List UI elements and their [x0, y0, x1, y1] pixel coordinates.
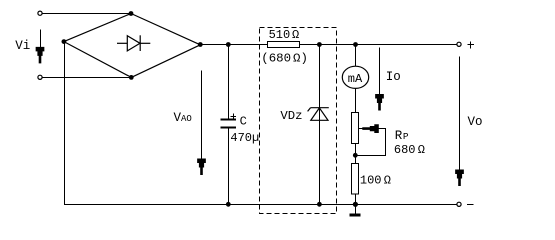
ground symbol [350, 205, 361, 217]
node bridge left vertex [62, 39, 67, 44]
svg-text:VDz: VDz [280, 109, 302, 123]
label Io [386, 70, 401, 84]
node bridge top vertex [129, 11, 134, 16]
svg-text:C: C [240, 115, 247, 129]
label plus sign [468, 42, 475, 49]
node capacitor bottom junction [226, 202, 231, 207]
wire left vertical drop to bottom rail [64, 42, 66, 205]
wire capacitor upper lead [228, 45, 230, 119]
svg-text:Vo: Vo [468, 115, 483, 129]
svg-text:510Ω: 510Ω [269, 28, 300, 42]
svg-text:Io: Io [386, 70, 401, 84]
wire zener branch vertical [319, 45, 321, 205]
output terminal plus [457, 42, 461, 46]
node bridge right vertex [198, 42, 203, 47]
svg-text:(680Ω): (680Ω) [261, 51, 308, 65]
dashed regulator box [260, 28, 337, 214]
output terminal minus [457, 202, 461, 206]
label C [240, 115, 247, 129]
svg-text:mA: mA [348, 72, 363, 86]
capacitor C plates [221, 119, 237, 129]
ammeter mA [342, 66, 368, 88]
label (680Ω) [261, 51, 308, 65]
label 470µ [230, 131, 259, 145]
node ammeter branch top junction [353, 42, 358, 47]
label 100Ω [360, 173, 391, 187]
wire Rp lower lead [355, 144, 357, 164]
bridge rectifier diamond [64, 14, 200, 78]
input terminal bottom-left [38, 75, 42, 79]
wire ammeter to potentiometer [355, 88, 357, 112]
label Rp [395, 129, 409, 143]
label VDz [280, 109, 302, 123]
label minus sign [467, 204, 474, 206]
arrow Vo (output voltage reference) [455, 56, 464, 186]
node ground junction [353, 202, 358, 207]
node capacitor top junction [226, 42, 231, 47]
diode inside bridge [117, 35, 150, 51]
svg-text:470µ: 470µ [230, 131, 259, 145]
capacitor polarity plus sign [231, 114, 237, 120]
svg-text:VAO: VAO [174, 111, 192, 125]
resistor R 510Ω body [268, 42, 300, 48]
wire top rail [200, 44, 456, 46]
wire 100Ω to bottom rail [355, 194, 357, 205]
svg-text:RP: RP [395, 129, 409, 143]
wire top-left rail [42, 13, 131, 15]
arrow Io (output current) [375, 48, 384, 111]
node zener top junction [317, 42, 322, 47]
arrow Vi (input voltage reference) [36, 30, 45, 64]
zener diode VDz symbol [308, 108, 329, 121]
wire bottom rail [64, 204, 457, 206]
label VAO [174, 111, 192, 125]
node wiper junction [353, 153, 358, 158]
arrow VAO (rectified voltage reference) [197, 71, 206, 175]
wire junction to ammeter [355, 45, 357, 67]
svg-text:680Ω: 680Ω [394, 143, 425, 157]
wire wiper return (right, down, left) [356, 129, 386, 156]
label Vo [468, 115, 483, 129]
node bridge bottom vertex [129, 75, 134, 80]
svg-text:100Ω: 100Ω [360, 173, 391, 187]
input terminal top-left [38, 11, 42, 15]
potentiometer wiper arrow [359, 124, 386, 133]
label Vi [15, 39, 30, 53]
node zener bottom junction [317, 202, 322, 207]
potentiometer Rp body [352, 113, 359, 144]
svg-text:Vi: Vi [15, 39, 30, 53]
label 680Ω [394, 143, 425, 157]
wire capacitor lower lead [228, 129, 230, 205]
resistor 100Ω body [352, 164, 359, 195]
label 510Ω [269, 28, 300, 42]
wire bottom-left to bridge bottom vertex [42, 77, 132, 79]
